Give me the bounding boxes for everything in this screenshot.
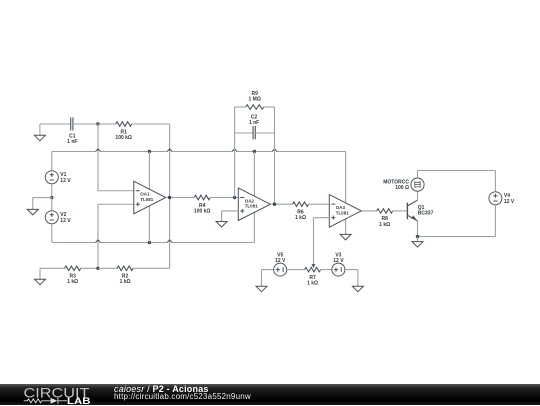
svg-text:TL081: TL081	[336, 210, 350, 215]
op-amp OA2 TL081	[238, 188, 270, 221]
wire V2 bottom to V- rail	[51, 224, 53, 243]
svg-text:12 V: 12 V	[60, 218, 71, 224]
wire OA2 non-inverting input to ground G3	[222, 211, 239, 222]
junction OA2 inverting input / R9C2 left	[233, 196, 236, 199]
svg-text:TL081: TL081	[140, 197, 154, 202]
wire midpoint to V2 top	[51, 198, 53, 211]
wire OA3 output to R8	[361, 210, 377, 212]
junction OA1 V- pin on rail	[148, 241, 151, 244]
wire hop V- rail over node-A column	[96, 240, 101, 243]
wire R4 to OA2 inverting input	[210, 197, 238, 199]
transistor Q1 BC337	[407, 200, 433, 221]
wire R9/C2 left column down to OA2 input	[234, 107, 236, 198]
svg-text:1 kΩ: 1 kΩ	[307, 281, 318, 287]
svg-text:1 kΩ: 1 kΩ	[67, 279, 78, 285]
wire C1 to node A	[73, 123, 98, 125]
resistor R3 1 kΩ	[65, 266, 81, 285]
wire V5 to R7	[287, 269, 305, 271]
ground G7 symbol	[352, 286, 363, 292]
junction V1/V2/ground	[50, 196, 53, 199]
svg-text:1 kΩ: 1 kΩ	[120, 279, 131, 285]
wire OA1 output to R4	[166, 197, 195, 199]
ground G5 symbol (OA3 V-)	[340, 234, 351, 240]
capacitor C1 1 nF	[67, 118, 77, 146]
ground G6 symbol	[256, 286, 267, 292]
junction emitter/ground/V4	[416, 235, 419, 238]
op-amp OA1 power pins	[148, 152, 150, 243]
op-amp OA3 TL081	[329, 195, 361, 228]
wire hop V+ rail over R9/C2 right column	[272, 149, 277, 152]
wire Q1 emitter down to ground node	[417, 221, 419, 237]
wire R7 to V3	[321, 269, 332, 271]
op-amp OA2 power pins	[253, 152, 255, 243]
resistor R4 100 kΩ	[194, 195, 211, 214]
wire OA3 non-inverting input down to R7 wiper	[314, 218, 330, 263]
svg-text:1 nF: 1 nF	[249, 120, 259, 126]
svg-text:100 kΩ: 100 kΩ	[194, 208, 211, 214]
resistor R9 1 MΩ	[235, 91, 264, 109]
resistor R6 1 kΩ	[293, 202, 309, 221]
R7 wiper arrow	[313, 263, 315, 265]
ground G4 stem	[417, 237, 419, 242]
voltage source V1 12 V	[45, 171, 71, 184]
wire hop V+ rail over feedback column	[167, 149, 172, 152]
svg-text:LAB: LAB	[67, 395, 91, 405]
wire feedback column R1/OA1-out/R2	[169, 124, 171, 268]
capacitor C2 1 nF	[235, 115, 260, 140]
wire node A down to OA1 inverting input	[98, 124, 134, 191]
svg-text:OA3: OA3	[336, 205, 346, 210]
op-amp OA3 power pins	[345, 152, 347, 235]
ground G4 symbol	[412, 242, 423, 248]
svg-text:100 kΩ: 100 kΩ	[115, 135, 132, 141]
svg-text:OA1: OA1	[140, 192, 150, 197]
V- supply rail	[52, 242, 255, 244]
wire hop V+ rail over R9/C2 left column	[232, 149, 237, 152]
svg-text:12 V: 12 V	[333, 258, 344, 264]
svg-text:1 MΩ: 1 MΩ	[249, 97, 261, 103]
voltage source V4 12 V	[489, 192, 515, 205]
wire motor top rail to V4	[418, 171, 496, 179]
op-amp OA1 TL081	[134, 181, 166, 214]
wire R1 to feedback column	[132, 123, 170, 125]
wire V3 right to ground G7	[345, 270, 358, 287]
svg-text:1 kΩ: 1 kΩ	[379, 222, 390, 228]
svg-text:12 V: 12 V	[60, 178, 71, 184]
wire R6 to OA3 inverting input	[309, 203, 330, 205]
wire OA2 output to R6	[270, 203, 292, 205]
wire R2 to feedback column	[133, 267, 170, 269]
wire hop V- rail over feedback column	[167, 240, 172, 243]
svg-text:100 Ω: 100 Ω	[395, 185, 409, 191]
ground G3 symbol	[216, 222, 227, 228]
junction OA1 V+ pin on rail	[148, 150, 151, 153]
junction OA1 output / feedback column	[168, 196, 171, 199]
voltage source V5 12 V	[274, 252, 287, 276]
wire R3 to junction	[81, 267, 98, 269]
ground G8 symbol	[35, 279, 46, 285]
wire R9/C2 right column down to OA2 output	[274, 107, 276, 204]
svg-text:OA2: OA2	[245, 198, 255, 203]
svg-text:BC337: BC337	[418, 211, 434, 217]
svg-text:1 nF: 1 nF	[67, 139, 77, 145]
svg-text:1 kΩ: 1 kΩ	[295, 215, 306, 221]
wire OA1 non-inverting input down to R3/R2 junction	[98, 204, 134, 268]
wire ground to C1	[40, 123, 71, 125]
wire C2 right lead	[255, 132, 274, 134]
ground G2 symbol	[27, 209, 38, 215]
wire V1 bottom to midpoint node	[51, 184, 53, 198]
footer bar	[0, 384, 540, 406]
resistor R1 100 kΩ	[98, 122, 132, 141]
ground G8 + stem	[40, 268, 65, 279]
potentiometer R7 1 kΩ	[305, 267, 321, 286]
ground G1 symbol	[34, 135, 45, 141]
junction R3/R2/OA1+ column	[96, 267, 99, 270]
wire bottom rail V4 to emitter node	[418, 236, 496, 238]
ground G1 (left of C1)	[39, 124, 41, 135]
wire rail down to V4 top	[494, 171, 496, 192]
junction OA2 output / R9C2 right	[273, 203, 276, 206]
svg-text:TL081: TL081	[245, 204, 259, 209]
svg-text:12 V: 12 V	[275, 258, 286, 264]
wire V4 bottom down	[494, 205, 496, 237]
svg-text:12 V: 12 V	[504, 199, 515, 205]
wire hop V+ rail over node-A column	[96, 149, 101, 152]
resistor R2 1 kΩ	[98, 266, 133, 285]
V+ supply rail	[52, 151, 346, 153]
motor MOTORCC 100 Ω	[383, 178, 424, 191]
junction OA2 V+ pin on rail	[253, 150, 256, 153]
voltage source V2 12 V	[45, 211, 71, 224]
wire motor to Q1 collector	[417, 191, 419, 200]
wire V5 left to ground G6	[262, 270, 274, 287]
wire R9 right lead	[264, 106, 275, 108]
wire V+ rail to V1 top	[51, 152, 53, 171]
wire midpoint to ground G2	[33, 198, 52, 210]
junction node A (C1/R1)	[96, 122, 99, 125]
resistor R8 1 kΩ	[377, 209, 393, 228]
wire R8 to Q1 base	[393, 210, 408, 212]
voltage source V3 12 V	[332, 252, 345, 276]
